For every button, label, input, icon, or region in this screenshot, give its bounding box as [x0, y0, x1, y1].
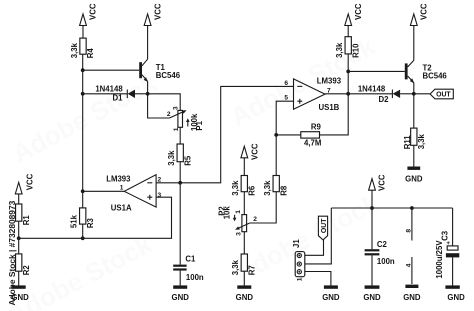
svg-text:R4: R4 — [86, 48, 95, 59]
ground (below pin 4) — [403, 285, 421, 303]
transistor T2 — [405, 60, 414, 83]
svg-text:100n: 100n — [186, 273, 204, 282]
wire C3 to ground — [452, 257, 454, 285]
wire VCC to R6 — [243, 158, 245, 176]
wire T2 collector to VCC — [413, 26, 415, 61]
svg-text:3: 3 — [235, 232, 242, 236]
wire D1 cathode side — [83, 93, 128, 95]
wire R10 down to output node — [347, 54, 349, 94]
svg-text:1: 1 — [173, 127, 180, 131]
wire P2 wiper to R8 riser — [250, 192, 277, 223]
svg-text:OUT: OUT — [436, 92, 451, 99]
wire base of T1 — [83, 69, 140, 71]
wire US1A pin3 riser to bottom rail — [19, 197, 172, 238]
resistor R2 — [16, 254, 31, 275]
svg-text:2: 2 — [253, 216, 257, 223]
wire junction down to P1 wiper — [148, 94, 170, 118]
resistor R10 — [335, 37, 360, 58]
wire C1 to ground — [179, 271, 181, 286]
wire D2 anode side — [400, 93, 414, 95]
wire US1B pin5 to R8 riser — [276, 101, 293, 175]
trimmer arrow (P1) — [187, 120, 189, 126]
resistor R7 — [231, 254, 256, 275]
wire pin 4 stub — [411, 257, 413, 284]
svg-text:US1B: US1B — [319, 103, 340, 112]
ground (below C2) — [363, 285, 381, 302]
svg-text:VCC: VCC — [153, 3, 162, 20]
svg-text:LM393: LM393 — [317, 77, 342, 86]
svg-text:R11: R11 — [403, 135, 412, 150]
wire US1A output to left column — [83, 190, 125, 192]
capacitor C2 — [365, 249, 380, 255]
wire rail to C3 — [452, 208, 454, 246]
power VCC arrow (bottom rail) — [369, 174, 387, 191]
ground (below C1) — [172, 285, 190, 302]
wire base of T2 — [348, 70, 405, 72]
svg-text:R1: R1 — [22, 215, 31, 226]
wire P2 to R7 — [243, 232, 245, 255]
svg-text:R6: R6 — [248, 185, 257, 196]
node R9 tap on pin5 riser — [274, 133, 278, 137]
svg-text:R10: R10 — [351, 43, 360, 58]
svg-text:100n: 100n — [377, 257, 395, 266]
wire C2 to ground — [371, 255, 373, 285]
svg-text:2: 2 — [167, 111, 171, 118]
svg-text:R5: R5 — [183, 155, 192, 166]
power VCC arrow (above R4) — [80, 3, 98, 25]
net flag OUT (right) — [430, 89, 453, 99]
svg-text:GND: GND — [405, 174, 423, 183]
svg-text:BC546: BC546 — [156, 71, 181, 80]
resistor R6 — [231, 176, 256, 196]
svg-text:D1: D1 — [113, 94, 124, 103]
wire P1 to R5 — [179, 127, 181, 144]
ground (below J1 pin3) — [322, 285, 340, 302]
svg-text:1N4148: 1N4148 — [95, 84, 123, 93]
svg-text:3,3k: 3,3k — [231, 180, 240, 196]
node bottom rail / R3 — [81, 236, 85, 240]
svg-text:VCC: VCC — [89, 3, 98, 20]
wire to OUT flag — [414, 93, 430, 95]
op-amp US1B — [294, 79, 326, 109]
resistor R1 — [16, 204, 31, 225]
wire R7 to ground — [243, 271, 245, 285]
node D1 cathode junction — [81, 92, 85, 96]
wire junction to P1 pin3 (top) — [148, 94, 181, 111]
svg-text:6: 6 — [284, 80, 288, 87]
trimmer arrow (P2) — [234, 215, 236, 219]
resistor R11 — [403, 128, 426, 149]
svg-text:R8: R8 — [279, 185, 288, 196]
wire R4 down left column to R3 — [82, 54, 84, 208]
power VCC arrow (above T2) — [410, 3, 428, 25]
wire rail to C2 — [371, 208, 373, 249]
wire VCC to R4 — [82, 26, 84, 39]
svg-text:5: 5 — [284, 95, 288, 102]
svg-text:4,7M: 4,7M — [304, 138, 321, 147]
ground (below C3) — [445, 285, 465, 302]
net flag OUT (to J1) — [318, 216, 328, 240]
svg-text:1N4148: 1N4148 — [358, 84, 386, 93]
svg-text:GND: GND — [363, 293, 381, 302]
svg-text:D2: D2 — [379, 95, 390, 104]
svg-text:4: 4 — [405, 263, 412, 267]
wire VCC rail — [331, 207, 452, 209]
diode D2 — [392, 90, 400, 99]
wire D1 anode side — [135, 93, 148, 95]
svg-text:3,3k: 3,3k — [167, 150, 176, 166]
svg-text:3,3k: 3,3k — [263, 180, 272, 196]
ground (below R11) — [405, 167, 423, 184]
svg-text:Adobe Stock | #732808973: Adobe Stock | #732808973 — [7, 200, 17, 305]
wire US1B output — [325, 93, 348, 95]
wire VCC to R10 — [347, 26, 349, 37]
power VCC arrow (above R6) — [241, 143, 260, 160]
wire D2 cathode side — [348, 93, 392, 95]
wire R9 left lead — [276, 134, 301, 136]
svg-text:3: 3 — [158, 192, 162, 199]
power VCC arrow (left divider) — [15, 173, 34, 194]
node US1B output / R10 / R9 / D2 — [346, 92, 350, 96]
wire R2 to ground — [18, 271, 20, 285]
ground (below R7) — [236, 285, 254, 302]
svg-text:3,3k: 3,3k — [417, 133, 426, 149]
svg-text:VCC: VCC — [420, 3, 429, 20]
node US1A pin2 / R5 / C1 — [178, 181, 182, 185]
svg-text:R7: R7 — [248, 265, 257, 275]
svg-text:J1: J1 — [292, 239, 301, 248]
svg-text:BC546: BC546 — [423, 71, 448, 80]
svg-text:LM393: LM393 — [106, 175, 131, 184]
wire R5 to pin2 node — [179, 162, 181, 183]
node T2 emitter / D2 / OUT — [412, 92, 416, 96]
svg-text:US1A: US1A — [111, 203, 132, 212]
wire pin2 node down to C1 — [179, 183, 181, 265]
wire R9 right lead to output riser — [320, 94, 349, 135]
diode D1 — [127, 90, 135, 99]
svg-text:3,3k: 3,3k — [70, 42, 79, 58]
svg-text:OUT: OUT — [321, 218, 328, 233]
capacitor C1 — [173, 265, 186, 271]
resistor R3 — [70, 208, 95, 228]
wire R6 to P2 — [243, 192, 245, 215]
wire J1 pin1 to OUT flag — [305, 239, 324, 255]
connector J1 — [295, 252, 305, 277]
svg-text:R2: R2 — [22, 265, 31, 276]
svg-text:1000u/25V: 1000u/25V — [435, 240, 444, 279]
svg-text:C1: C1 — [185, 255, 196, 264]
svg-text:VCC: VCC — [251, 143, 260, 160]
svg-text:R9: R9 — [311, 122, 322, 131]
node T1 emitter / D1 / P1 junction — [146, 92, 150, 96]
wire output node to R11 — [413, 94, 415, 128]
svg-text:3,3k: 3,3k — [335, 42, 344, 58]
resistor R9 — [301, 132, 320, 138]
ground (below R2) — [11, 285, 29, 302]
capacitor C3 (electrolytic) — [446, 240, 459, 258]
svg-text:51k: 51k — [70, 214, 79, 228]
svg-text:GND: GND — [172, 293, 190, 302]
wire J1 pin2 to rail riser — [305, 208, 332, 264]
transistor T1 — [139, 59, 148, 82]
svg-text:P1: P1 — [195, 120, 204, 130]
node rail / C2 — [370, 206, 374, 210]
svg-text:10k: 10k — [223, 206, 232, 220]
svg-text:C3: C3 — [440, 230, 449, 241]
node T2 base tap — [346, 70, 350, 74]
svg-text:VCC: VCC — [354, 3, 363, 20]
svg-text:1: 1 — [235, 210, 242, 214]
svg-text:VCC: VCC — [25, 173, 34, 190]
svg-text:C2: C2 — [377, 240, 388, 249]
wire T2 emitter down — [413, 83, 415, 94]
wire VCC to rail — [371, 190, 373, 208]
wire VCC to R1 — [18, 194, 20, 204]
power VCC arrow (above R10) — [345, 3, 363, 25]
svg-text:1: 1 — [296, 277, 303, 281]
potentiometer P1 — [170, 110, 187, 127]
potentiometer P2 — [235, 215, 250, 232]
resistor R8 — [263, 176, 288, 196]
resistor R4 — [70, 38, 95, 58]
node divider junction R1/R2 — [17, 236, 21, 240]
svg-text:3,3k: 3,3k — [231, 259, 240, 275]
node rail / pin8 — [410, 206, 414, 210]
wire R11 to ground — [413, 145, 415, 166]
svg-text:GND: GND — [403, 293, 421, 302]
wire T1 emitter down — [147, 81, 149, 93]
wire R3 to bottom rail — [82, 224, 84, 238]
power VCC arrow (above T1) — [144, 3, 162, 25]
svg-text:GND: GND — [236, 293, 254, 302]
resistor R5 — [167, 144, 192, 166]
node US1A output junction — [81, 189, 85, 193]
svg-text:3: 3 — [173, 106, 180, 110]
wire pin 8 stub — [411, 208, 413, 241]
op-amp US1A — [124, 175, 156, 208]
svg-text:GND: GND — [447, 293, 465, 302]
wire R1 to R2 junction — [18, 221, 20, 254]
wire US1A pin2 to R5 node — [156, 182, 180, 184]
wire T1 collector to VCC — [147, 26, 149, 60]
svg-text:R3: R3 — [86, 217, 95, 228]
wire pin2 node to feedback riser — [180, 86, 293, 182]
svg-text:GND: GND — [322, 293, 340, 302]
svg-text:VCC: VCC — [378, 174, 387, 191]
node T1 base junction — [81, 68, 85, 72]
svg-text:8: 8 — [405, 229, 412, 233]
wire J1 pin3 to ground — [305, 272, 331, 286]
svg-text:1: 1 — [120, 184, 124, 191]
